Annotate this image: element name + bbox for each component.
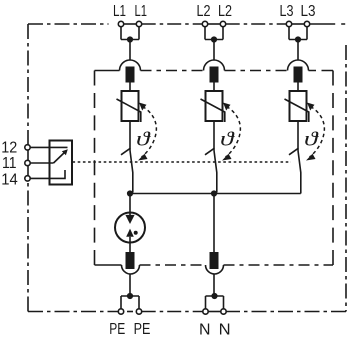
wire: varistor L3 to disconnect switch <box>297 121 299 151</box>
plug contact hump L2 <box>204 60 225 71</box>
wire: L3 pin to varistor <box>297 83 299 92</box>
terminal L1 a <box>118 21 123 26</box>
module bottom edge left segment <box>95 264 122 266</box>
junction N tie bar <box>211 293 217 299</box>
module top edge dash-dot between L2 and L3 <box>225 70 288 72</box>
wire: terminal 11 lead <box>30 162 53 164</box>
module boundary top edge segment with plug hump L1 <box>95 70 120 72</box>
svg-text:L1: L1 <box>135 3 148 20</box>
wire: L3 drop to plug <box>297 40 299 61</box>
module boundary dashed rect: right edge <box>332 71 334 266</box>
arc arrowhead at varistor L1 <box>139 103 147 111</box>
svg-text:ϑ: ϑ <box>220 129 235 151</box>
svg-text:14: 14 <box>1 172 18 189</box>
terminal L3 b <box>304 21 309 26</box>
module bottom edge dash-dot right of N <box>224 264 334 266</box>
varistor diagonal L3 <box>285 99 309 122</box>
wire: varistor L1 to disconnect switch <box>129 121 131 151</box>
spark gap trigger dot <box>134 231 138 235</box>
thermal disconnector pin L3 (black) <box>294 67 303 83</box>
svg-text:L2: L2 <box>197 3 211 20</box>
plug contact hump L3 <box>288 60 309 71</box>
wire: bus to N pin <box>213 194 215 253</box>
spark gap lower arrowhead <box>126 229 134 237</box>
wire: PE riser from socket <box>129 274 131 296</box>
outer enclosure dash-dot border: right edge <box>345 45 347 312</box>
wire: link between L1 terminals <box>124 23 137 25</box>
changeover contact blade <box>54 152 66 164</box>
arc arrowhead at switch L1 <box>138 154 148 161</box>
arc arrowhead at switch L2 <box>222 154 232 161</box>
svg-text:N: N <box>219 321 231 338</box>
svg-text:L1: L1 <box>113 3 126 20</box>
varistor diagonal L2 <box>201 99 225 122</box>
wire: link between N terminals <box>208 311 221 313</box>
svg-text:PE: PE <box>109 321 125 338</box>
terminal 14 <box>25 176 30 181</box>
wire: bus to spark gap <box>129 194 131 216</box>
thermal disconnect tick L1 <box>121 148 130 155</box>
varistor box L3 <box>290 91 307 121</box>
module boundary dashed rect: left edge <box>94 71 96 266</box>
module bottom edge dash-dot between PE and N <box>140 264 206 266</box>
terminal N a <box>203 309 208 314</box>
bottom disconnector pin PE (black) <box>126 252 135 269</box>
junction L3 tie bar <box>295 36 301 42</box>
varistor box L1 <box>122 91 139 121</box>
varistor box L2 <box>206 91 223 121</box>
terminal L2 a <box>202 21 207 26</box>
svg-text:PE: PE <box>134 321 151 338</box>
bottom disconnector pin N (black) <box>210 252 219 269</box>
thermal disconnect tick L3 <box>289 148 298 155</box>
arc arrowhead at switch L3 <box>306 154 316 161</box>
wire: link between PE terminals (short dash) <box>127 311 133 313</box>
disconnect switch blade L2 <box>214 151 217 193</box>
svg-text:ϑ: ϑ <box>304 129 319 151</box>
wire: spark gap to PE pin <box>129 237 131 252</box>
wire: link between L2 terminals <box>208 23 221 25</box>
svg-text:ϑ: ϑ <box>136 129 151 151</box>
socket contact dip N <box>206 265 224 274</box>
terminal 11 <box>25 160 30 165</box>
disconnect switch blade L3 <box>298 151 301 194</box>
spark gap upper arrowhead <box>125 215 134 224</box>
thermal disconnector pin L2 (black) <box>210 67 219 83</box>
wire: L1 drop to plug <box>129 40 131 61</box>
junction PE tie bar <box>127 293 133 299</box>
wire: L1 pin to varistor <box>129 83 131 92</box>
wire: terminal 12 lead <box>30 146 67 148</box>
module top edge dash-dot right of L3 <box>309 70 334 72</box>
outer enclosure dash-dot border: top edge <box>28 23 345 25</box>
thermal action arc L3 <box>310 107 325 158</box>
wire: N stubs and tie bar <box>206 296 224 309</box>
svg-text:11: 11 <box>2 155 17 172</box>
svg-text:L3: L3 <box>280 3 294 20</box>
wire: L2 drop to plug <box>213 40 215 61</box>
module top edge dash-dot between L1 and L2 <box>141 70 204 72</box>
arc arrowhead at varistor L3 <box>307 103 315 111</box>
thermal disconnect tick L2 <box>205 148 214 155</box>
junction bus at L2 <box>211 190 217 196</box>
thermal action arc L1 <box>142 107 157 158</box>
terminal L3 a <box>286 21 291 26</box>
remote signalling contact box <box>50 141 73 185</box>
socket contact dip PE <box>122 265 140 274</box>
wire: N bus <box>130 193 301 195</box>
svg-text:12: 12 <box>1 140 17 157</box>
svg-text:L2: L2 <box>218 3 232 20</box>
wire: terminal 14 lead with stub <box>30 170 65 178</box>
junction bus at L1 <box>127 190 133 196</box>
arc arrowhead at varistor L2 <box>223 103 231 111</box>
wire: L3 terminal stubs and tie bar <box>289 27 307 40</box>
outer enclosure dash-dot border: bottom edge <box>28 311 346 313</box>
wire: PE stubs and tie bar <box>121 296 139 309</box>
disconnect switch blade L1 <box>130 151 133 193</box>
terminal L1 b <box>136 21 141 26</box>
wire: N riser from socket <box>213 274 215 296</box>
terminal N b <box>221 309 226 314</box>
junction L2 tie bar <box>211 36 217 42</box>
plug contact hump L1 <box>120 60 141 71</box>
changeover contact blade arrowhead <box>62 149 68 155</box>
terminal PE a <box>118 309 123 314</box>
wire: link between L3 terminals <box>292 23 305 25</box>
thermal action arc L2 <box>226 107 241 158</box>
wire: L2 pin to varistor <box>213 83 215 92</box>
terminal L2 b <box>220 21 225 26</box>
svg-text:L3: L3 <box>301 3 316 20</box>
varistor diagonal L1 <box>117 99 141 122</box>
svg-text:N: N <box>199 321 211 338</box>
wire: L1 terminal stubs and tie bar <box>121 27 139 40</box>
junction L1 tie bar <box>127 36 133 42</box>
wire: L2 terminal stubs and tie bar <box>205 27 223 40</box>
mechanical linkage dotted line <box>73 161 292 163</box>
spark gap N-PE circle <box>115 213 145 243</box>
terminal 12 <box>25 145 30 150</box>
terminal PE b <box>136 309 141 314</box>
wire: varistor L2 to disconnect switch <box>213 121 215 151</box>
thermal disconnector pin L1 (black) <box>126 67 135 83</box>
outer enclosure dash-dot border: left edge <box>27 24 29 312</box>
